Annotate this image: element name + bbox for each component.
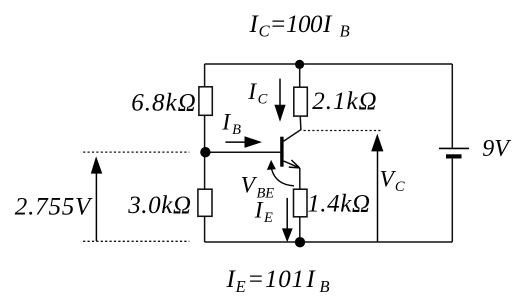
- wire collector branch lower + bend into transistor: [284, 116, 301, 142]
- svg-text:VC: VC: [380, 166, 405, 195]
- wire bottom rail: [205, 241, 453, 243]
- battery B1 long plate: [439, 147, 469, 149]
- svg-text:IB: IB: [221, 109, 241, 138]
- svg-text:3.0kΩ: 3.0kΩ: [127, 192, 191, 219]
- svg-text:2.1kΩ: 2.1kΩ: [312, 88, 377, 115]
- svg-text:1.4kΩ: 1.4kΩ: [307, 191, 370, 218]
- dotted line bottom level left: [83, 240, 189, 242]
- wire right branch lower (from battery -): [451, 159, 453, 242]
- resistor RE 1.4k box: [294, 189, 308, 217]
- resistor R2 3.0k box: [198, 189, 212, 216]
- transistor Q1 emitter arrow barb upper: [291, 160, 299, 168]
- wire base: [205, 151, 281, 153]
- transistor Q1 emitter line: [284, 161, 300, 168]
- wire emitter vertical lower: [299, 217, 301, 242]
- arrow V_C (up, measurement): [377, 151, 379, 242]
- svg-text:IC: IC: [247, 79, 267, 108]
- node dot base (divider junction): [200, 147, 210, 157]
- svg-text:IC=100IB: IC=100IB: [249, 11, 350, 41]
- wire emitter vertical upper: [299, 168, 301, 189]
- arrow 2.755V (up, measurement): [95, 174, 97, 242]
- node dot bottom (emitter rail junction): [295, 237, 305, 247]
- arrow I_B (right, above base wire): [225, 141, 245, 143]
- resistor RC 2.1k box: [294, 87, 308, 116]
- svg-text:IE=101IB: IE=101IB: [226, 266, 330, 296]
- wire right branch upper (to battery +): [451, 64, 453, 148]
- svg-text:9V: 9V: [482, 136, 511, 162]
- wire top rail: [205, 63, 453, 65]
- svg-text:IE: IE: [254, 197, 273, 226]
- node dot top (collector rail junction): [295, 60, 304, 69]
- transistor Q1 base bar: [280, 137, 283, 167]
- arrow I_C (down, left of RC): [279, 79, 281, 106]
- svg-text:6.8kΩ: 6.8kΩ: [131, 90, 196, 117]
- dotted line base level left: [83, 151, 189, 153]
- battery B1 short thick plate: [446, 154, 462, 158]
- arrow I_E (down, left of RE): [286, 198, 288, 229]
- arrow V_BE curved: [272, 169, 294, 186]
- svg-text:2.755V: 2.755V: [15, 194, 93, 221]
- resistor R1 6.8k box: [199, 87, 212, 116]
- dotted line collector level: [304, 130, 383, 132]
- wire collector branch upper: [299, 64, 301, 87]
- wire left branch: [204, 64, 206, 242]
- transistor Q1 emitter arrow barb lower: [289, 166, 300, 169]
